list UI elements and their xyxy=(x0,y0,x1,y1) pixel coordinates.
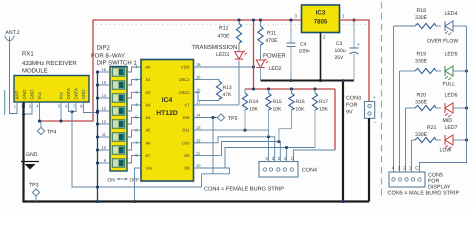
resistor R21 xyxy=(412,125,442,143)
dotted guide xyxy=(96,24,368,26)
wire antenna stem to RX1 pin 1 xyxy=(10,41,18,114)
svg-text:R20: R20 xyxy=(417,93,427,99)
wire VT pin17 to LED3 xyxy=(194,61,240,105)
svg-text:R17: R17 xyxy=(319,99,328,105)
svg-text:FOR 8–WAY: FOR 8–WAY xyxy=(91,52,125,59)
svg-text:4: 4 xyxy=(392,166,395,171)
wire data loop xyxy=(202,168,230,187)
svg-text:D9: D9 xyxy=(184,153,190,158)
svg-text:TP3: TP3 xyxy=(29,183,39,189)
connector CON5 xyxy=(389,166,451,191)
svg-text:25V: 25V xyxy=(335,55,345,61)
wire 5V vertical xyxy=(252,18,255,89)
svg-text:TP5: TP5 xyxy=(228,116,238,122)
svg-text:MID: MID xyxy=(443,118,453,124)
connector CON4 xyxy=(259,156,317,177)
svg-text:100n: 100n xyxy=(299,49,310,55)
capacitor C3 xyxy=(335,18,361,61)
svg-text:RX1: RX1 xyxy=(22,51,34,58)
svg-text:D10: D10 xyxy=(182,140,190,145)
wire Vcc pins to 5V xyxy=(38,102,63,123)
svg-text:D8: D8 xyxy=(184,166,190,171)
svg-text:330E: 330E xyxy=(415,15,428,21)
svg-text:3: 3 xyxy=(398,166,401,171)
wire GND receiver pin2 to rail xyxy=(24,102,370,202)
svg-text:R18: R18 xyxy=(417,8,427,14)
test point TP5 xyxy=(217,114,237,122)
svg-text:TP4: TP4 xyxy=(47,130,57,136)
svg-text:12: 12 xyxy=(196,138,201,143)
svg-text:13: 13 xyxy=(102,106,107,111)
svg-text:A4: A4 xyxy=(146,115,152,120)
svg-text:18: 18 xyxy=(196,62,201,67)
svg-text:A6: A6 xyxy=(146,140,152,145)
svg-text:TRANSMISSION: TRANSMISSION xyxy=(192,44,238,51)
svg-text:DATA: DATA xyxy=(66,88,71,99)
wire D10 line xyxy=(194,135,275,161)
svg-text:+: + xyxy=(373,95,376,100)
svg-text:LED7: LED7 xyxy=(445,125,458,131)
svg-text:10: 10 xyxy=(196,163,201,168)
svg-text:R21: R21 xyxy=(427,125,437,131)
LED2 xyxy=(256,45,286,72)
resistor R19 xyxy=(400,52,442,74)
svg-text:V​ss: V​ss xyxy=(146,166,153,171)
svg-text:OVER FLOW: OVER FLOW xyxy=(427,39,458,45)
svg-text:16: 16 xyxy=(196,75,201,80)
svg-text:16: 16 xyxy=(102,67,107,72)
resistor R13 xyxy=(216,81,232,99)
svg-text:D11: D11 xyxy=(182,128,190,133)
svg-text:C4: C4 xyxy=(300,42,307,48)
svg-text:R13: R13 xyxy=(223,85,232,91)
resistor R15 xyxy=(266,89,282,137)
svg-text:LOW: LOW xyxy=(440,148,452,154)
svg-text:470E: 470E xyxy=(266,38,279,44)
svg-text:LED4: LED4 xyxy=(445,11,458,17)
resistor R18 xyxy=(394,8,442,29)
svg-text:−: − xyxy=(374,120,377,125)
connector CON3 xyxy=(346,95,377,125)
wire Vss to ground rail xyxy=(133,168,141,203)
svg-text:GND: GND xyxy=(29,89,34,100)
svg-text:LED5: LED5 xyxy=(445,52,458,58)
wire DATA pins join xyxy=(69,102,77,113)
DIP switch DIP2 xyxy=(91,44,141,171)
resistor R14 xyxy=(242,89,258,130)
svg-text:A5: A5 xyxy=(146,128,152,133)
svg-text:330E: 330E xyxy=(415,100,428,106)
svg-text:+: + xyxy=(357,42,360,47)
svg-text:GND: GND xyxy=(26,152,38,158)
test point TP3 xyxy=(29,183,40,202)
svg-text:DIP SWITCH 1: DIP SWITCH 1 xyxy=(97,59,138,66)
svg-text:CON4 = FEMALE BURG STRIP: CON4 = FEMALE BURG STRIP xyxy=(204,187,284,193)
wire GND line xyxy=(261,54,355,82)
capacitor C4 xyxy=(287,18,310,80)
LED LED5 xyxy=(443,52,469,88)
note CON4 xyxy=(204,187,284,193)
wire display common rail xyxy=(420,26,467,172)
wire 5V rail left segment xyxy=(40,20,302,121)
svg-text:10: 10 xyxy=(102,145,107,150)
svg-text:R11: R11 xyxy=(267,31,276,37)
svg-text:CON3: CON3 xyxy=(346,96,361,102)
svg-text:10K: 10K xyxy=(319,107,329,113)
svg-text:13: 13 xyxy=(196,125,201,130)
svg-text:POWER: POWER xyxy=(263,53,286,60)
wire LED2 to GND line xyxy=(260,67,262,81)
svg-text:FULL: FULL xyxy=(443,82,456,88)
svg-text:OSC2: OSC2 xyxy=(179,90,191,95)
svg-text:C3: C3 xyxy=(336,41,343,47)
wire DIN riser xyxy=(202,118,214,174)
resistor R20 xyxy=(406,93,442,111)
svg-text:7805: 7805 xyxy=(314,19,328,26)
svg-text:DATA: DATA xyxy=(73,88,78,99)
svg-text:9V: 9V xyxy=(346,110,353,116)
resistor R11 xyxy=(258,18,278,45)
svg-text:Vcc: Vcc xyxy=(37,91,42,99)
svg-text:HT12D: HT12D xyxy=(156,110,178,117)
svg-text:470E: 470E xyxy=(218,33,231,39)
svg-text:ANT: ANT xyxy=(14,90,19,99)
svg-text:ANT.2: ANT.2 xyxy=(5,30,19,36)
svg-text:330E: 330E xyxy=(415,59,428,65)
wire D8 line xyxy=(194,146,316,168)
svg-text:ON: ON xyxy=(108,178,116,184)
resistor R17 xyxy=(312,89,328,148)
wire OSC1 pin16 xyxy=(194,80,220,81)
svg-text:R14: R14 xyxy=(249,99,258,105)
svg-text:CON4: CON4 xyxy=(302,168,317,174)
svg-text:14: 14 xyxy=(102,93,107,98)
LED3 xyxy=(192,43,247,59)
svg-text:LED3: LED3 xyxy=(216,52,229,58)
svg-text:3: 3 xyxy=(272,156,275,161)
svg-text:2: 2 xyxy=(278,156,281,161)
svg-text:LED2: LED2 xyxy=(269,66,282,72)
ground symbol GND xyxy=(21,152,39,170)
wire GND drop to rail xyxy=(341,79,344,203)
wire CON3 minus to rail xyxy=(368,118,370,201)
wire receiver pin3 to GND xyxy=(22,102,32,116)
svg-text:4: 4 xyxy=(265,156,268,161)
test point TP4 xyxy=(37,121,56,136)
wire receiver pin8 to DIP ground bus xyxy=(84,108,98,113)
DIP ground bus xyxy=(96,70,99,203)
svg-text:A0: A0 xyxy=(146,65,152,70)
wire CON5 pin2 feed xyxy=(405,108,407,172)
wire DIN pin14 xyxy=(194,116,218,119)
svg-text:LED6: LED6 xyxy=(445,93,458,99)
svg-text:A2: A2 xyxy=(146,90,152,95)
svg-text:GND: GND xyxy=(22,89,27,100)
wire 9V input xyxy=(340,20,370,102)
svg-text:FOR: FOR xyxy=(346,103,357,109)
svg-text:CON5 = MALE BURG STRIP: CON5 = MALE BURG STRIP xyxy=(388,191,460,197)
dashed boundary xyxy=(381,2,383,196)
wire CON5 pin3 feed xyxy=(399,71,401,172)
svg-text:12: 12 xyxy=(102,119,107,124)
svg-text:433MHz RECEIVER: 433MHz RECEIVER xyxy=(22,60,77,67)
boundary dash fragment xyxy=(4,90,6,115)
svg-text:10K: 10K xyxy=(273,107,283,113)
regulator IC3 7805 xyxy=(295,5,345,40)
svg-text:1: 1 xyxy=(409,166,412,171)
433MHz receiver module RX1 xyxy=(14,51,89,109)
decoder IC4 HT12D xyxy=(141,60,201,182)
svg-text:DIP2: DIP2 xyxy=(97,44,111,51)
svg-text:R15: R15 xyxy=(273,99,282,105)
svg-text:V​DD: V​DD xyxy=(181,65,190,70)
wire D11 line xyxy=(194,129,269,162)
svg-text:MODULE: MODULE xyxy=(22,68,48,75)
LED LED4 xyxy=(427,11,467,45)
svg-text:OSC1: OSC1 xyxy=(179,77,191,82)
svg-text:2: 2 xyxy=(403,166,406,171)
svg-text:47K: 47K xyxy=(223,92,233,98)
wire CON5 pin4 feed xyxy=(393,26,395,172)
svg-text:IC4: IC4 xyxy=(162,97,173,104)
svg-text:Vcc: Vcc xyxy=(58,91,63,99)
wire OSC2 pin15 xyxy=(194,92,220,100)
wire DATA down and right xyxy=(69,112,202,188)
svg-text:A7: A7 xyxy=(146,153,152,158)
wire 5V pullup rail xyxy=(245,87,335,90)
wire C feed xyxy=(294,89,336,162)
resistor R12 xyxy=(218,18,242,43)
svg-text:A3: A3 xyxy=(146,103,152,108)
svg-text:14: 14 xyxy=(196,113,201,118)
svg-text:R19: R19 xyxy=(417,52,427,58)
svg-text:10K: 10K xyxy=(296,107,306,113)
svg-text:R12: R12 xyxy=(219,26,229,32)
wire 7805 pin2 to GND xyxy=(319,33,322,83)
resistor R16 xyxy=(279,89,305,142)
svg-text:DIN: DIN xyxy=(183,115,190,120)
wire VDD pin18 to 5V xyxy=(194,65,256,68)
svg-text:R16: R16 xyxy=(296,99,305,105)
svg-text:15: 15 xyxy=(196,87,201,92)
svg-text:IC3: IC3 xyxy=(316,10,326,17)
wire CON5 pin1 feed xyxy=(411,140,413,172)
svg-text:10K: 10K xyxy=(249,107,259,113)
svg-text:15: 15 xyxy=(102,80,107,85)
svg-text:100u: 100u xyxy=(335,48,346,54)
note CON5 xyxy=(388,191,460,197)
svg-text:1: 1 xyxy=(284,156,287,161)
svg-text:A1: A1 xyxy=(146,77,152,82)
wire D9 line xyxy=(194,140,281,162)
svg-text:GND: GND xyxy=(81,89,86,100)
LED LED6 xyxy=(443,93,469,125)
ON OFF arrow xyxy=(108,178,140,184)
antenna ANT.2 xyxy=(5,30,20,41)
LED LED7 xyxy=(440,125,469,154)
svg-text:VT: VT xyxy=(184,103,190,108)
